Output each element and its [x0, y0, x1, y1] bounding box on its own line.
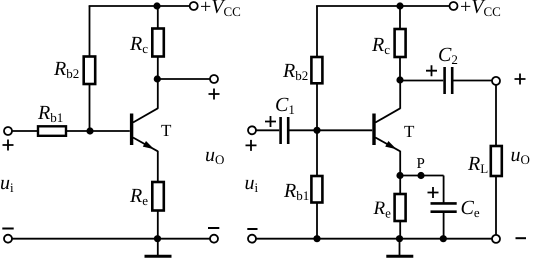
wire: Rc bottom to collector node (right) — [399, 57, 401, 80]
wire: emitter node to Re (right) — [399, 176, 401, 195]
terminal: input − (right) — [248, 235, 256, 243]
svg-text:RL: RL — [467, 153, 488, 176]
label RL — [467, 153, 488, 176]
terminal: output + (left) — [210, 75, 218, 83]
terminal: input − (left) — [4, 235, 12, 243]
wire: collector node to output terminal (left) — [157, 78, 210, 80]
node: top rail junction (left) — [153, 2, 160, 9]
label: +Vcc (left) — [200, 0, 241, 19]
wire: bottom rail (left) — [12, 238, 210, 240]
terminal: +Vcc (right) — [450, 2, 458, 10]
node P — [417, 172, 424, 179]
svg-text:ui: ui — [245, 172, 259, 195]
svg-text:Re: Re — [373, 198, 392, 221]
svg-text:Rc: Rc — [371, 34, 390, 57]
label Rb1 (right) — [283, 180, 309, 203]
svg-text:Rb1: Rb1 — [283, 180, 309, 203]
wire: collector node to C2 — [400, 80, 443, 82]
wire: corner down to Ce — [443, 176, 445, 204]
label Rb1 — [37, 102, 63, 125]
label: output + sign (left) — [209, 89, 220, 100]
ground (left) — [145, 239, 172, 257]
resistor Rb1 — [38, 126, 66, 136]
svg-text:Rc: Rc — [129, 33, 148, 56]
label T (left) — [161, 121, 172, 140]
resistor Rc (right) — [395, 29, 406, 57]
label Rb2 (right) — [282, 60, 308, 83]
svg-text:T: T — [404, 122, 415, 141]
svg-text:Re: Re — [129, 185, 148, 208]
terminal: output − (right) — [492, 235, 500, 243]
resistor RL — [491, 146, 502, 176]
terminal: input + (left) — [4, 127, 12, 135]
node: top rail junction (right) — [396, 2, 403, 9]
node: emitter junction (right) — [396, 172, 403, 179]
svg-text:uO: uO — [511, 144, 530, 167]
label T (right) — [404, 122, 415, 141]
wire: input to C1 — [256, 129, 279, 131]
capacitor C1 — [281, 117, 289, 144]
label: Ce + polarity — [428, 187, 439, 198]
node: Rb1 bottom junction (right) — [313, 235, 320, 242]
wire: C1 to base node (right) — [290, 129, 373, 131]
wire: collector vertical (left) — [157, 79, 159, 109]
label C2 — [438, 44, 458, 67]
label: input − sign (left) — [2, 228, 13, 230]
node: base junction (right) — [313, 127, 320, 134]
label: +Vcc (right) — [460, 0, 501, 19]
wire: input terminal to Rb1 — [12, 130, 38, 132]
terminal: input + (right) — [248, 126, 256, 134]
svg-text:Ce: Ce — [461, 197, 480, 220]
wire: Rb1 to base — [66, 130, 130, 132]
wire: top rail (left) — [89, 5, 190, 7]
wire: RL to output − terminal — [495, 176, 497, 235]
wire: emitter node to Ce corner — [400, 175, 444, 177]
label Rb2 — [53, 58, 79, 81]
terminal: +Vcc (left) — [190, 2, 198, 10]
svg-text:Rb1: Rb1 — [37, 102, 63, 125]
label P — [417, 156, 425, 172]
wire: Rb2 branch upper (right) — [316, 6, 318, 57]
svg-text:uO: uO — [205, 144, 224, 167]
wire: emitter vertical to Re (left) — [157, 151, 159, 182]
svg-text:Rb2: Rb2 — [53, 58, 79, 81]
label u_i (right) — [245, 172, 259, 195]
node: Re bottom ground junction (right) — [396, 235, 403, 242]
label Rc (left) — [129, 33, 148, 56]
resistor Rb2 (right) — [311, 57, 322, 83]
label: output − sign (left) — [208, 227, 219, 229]
svg-text:C1: C1 — [275, 94, 295, 117]
label: input + sign (left) — [3, 140, 14, 151]
label: input − sign (right) — [247, 228, 257, 230]
wire: top rail (right) — [316, 5, 449, 7]
label Re (left) — [129, 185, 148, 208]
wire: output terminal to RL — [495, 85, 497, 146]
resistor Rc (left) — [152, 29, 164, 57]
terminal: output + (right) — [492, 77, 500, 85]
label u_i (left) — [0, 172, 14, 195]
wire: emitter vertical (right) — [399, 151, 401, 176]
resistor Rb2 — [84, 57, 96, 85]
resistor Re (right) — [395, 194, 406, 221]
wire: Ce to bottom rail — [443, 212, 445, 239]
svg-text:C2: C2 — [438, 44, 458, 67]
capacitor Ce — [431, 203, 457, 211]
wire: Rb2 branch lower — [89, 84, 91, 131]
label Ce — [461, 197, 480, 220]
node: emitter ground junction (left) — [154, 235, 161, 242]
wire: Re to bottom rail (left) — [157, 211, 159, 239]
node: base junction (left) — [86, 127, 93, 134]
label Re (right) — [373, 198, 392, 221]
wire: Rb2 branch upper — [89, 6, 91, 57]
label u_O (left) — [205, 144, 224, 167]
wire: collector vertical (right) — [399, 80, 401, 109]
wire: Rc top (right) — [399, 6, 401, 29]
svg-text:ui: ui — [0, 172, 14, 195]
wire: Rb2 branch lower (right) — [316, 83, 318, 130]
resistor Re (left) — [152, 182, 164, 211]
label: output − sign (right) — [516, 237, 527, 239]
wire: Rb1 to bottom rail (right) — [316, 203, 318, 239]
svg-text:P: P — [417, 156, 425, 172]
label u_O (right) — [511, 144, 530, 167]
node: collector junction (right) — [396, 76, 403, 83]
label: output + sign (right) — [515, 74, 526, 85]
label: C1 + polarity — [265, 116, 276, 127]
label Rc (right) — [371, 34, 390, 57]
svg-text:+VCC: +VCC — [460, 0, 501, 19]
svg-text:Rb2: Rb2 — [282, 60, 308, 83]
wire: C2 to output terminal (right) — [454, 80, 493, 82]
terminal: output − (left) — [210, 235, 218, 243]
label: input + sign (right) — [246, 140, 257, 151]
wire: Re to bottom rail (right) — [399, 221, 401, 239]
svg-text:T: T — [161, 121, 172, 140]
label: C2 + polarity — [426, 65, 437, 76]
resistor Rb1 (right) — [311, 176, 322, 203]
label C1 — [275, 94, 295, 117]
wire: Rc top (left) — [157, 6, 159, 29]
node: collector output junction (left) — [154, 75, 161, 82]
capacitor C2 — [445, 67, 453, 94]
node: Ce bottom junction — [440, 235, 447, 242]
transistor T (left) — [130, 108, 158, 151]
wire: bottom rail (right) — [256, 238, 492, 240]
transistor T (right) — [372, 108, 400, 151]
ground (right) — [386, 239, 413, 257]
svg-text:+VCC: +VCC — [200, 0, 241, 19]
wire: base node to Rb1 (right) — [316, 130, 318, 176]
wire: Rc bottom to collector node (left) — [157, 57, 159, 80]
